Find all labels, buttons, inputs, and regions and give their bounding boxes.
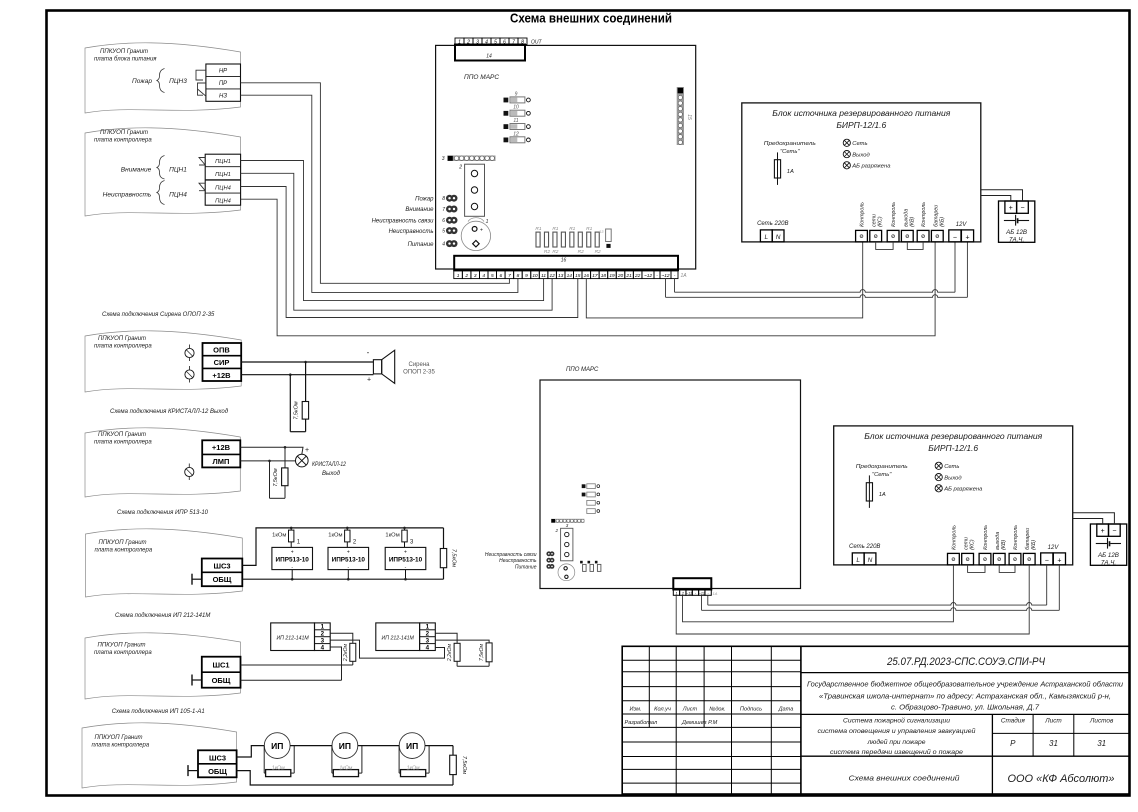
terminal box ShS1 OBSch ip212 (202, 657, 241, 688)
object description (807, 680, 1123, 712)
svg-text:ШС3: ШС3 (213, 561, 230, 570)
svg-text:Листов: Листов (1089, 718, 1114, 725)
buzzer 1 MARS1 (461, 218, 490, 251)
MARS2 bottom terminal block (673, 578, 717, 596)
stage sheet columns (1001, 717, 1114, 749)
svg-text:"Сеть": "Сеть" (780, 149, 800, 155)
jumper 10 (504, 105, 531, 117)
svg-text:R2: R2 (552, 249, 558, 255)
jumper 9 (504, 91, 531, 103)
svg-text:плата блока питания: плата блока питания (94, 57, 157, 63)
svg-text:5: 5 (442, 229, 445, 235)
svg-text:1: 1 (457, 273, 460, 279)
svg-text:Сирена: Сирена (408, 362, 430, 368)
svg-text:№док.: №док. (709, 707, 725, 713)
svg-text:1кОм: 1кОм (407, 766, 420, 772)
svg-text:АБ разряжена: АБ разряжена (943, 487, 983, 493)
svg-text:Схема подключения ИПР 513-10: Схема подключения ИПР 513-10 (117, 510, 209, 516)
svg-text:7: 7 (442, 207, 445, 213)
svg-text:ИПР513-10: ИПР513-10 (389, 557, 423, 564)
svg-text:Внимание: Внимание (121, 167, 152, 174)
svg-text:2,2кОм: 2,2кОм (343, 643, 349, 662)
BIRP-12/1.6 power supply unit 1 body (742, 103, 981, 242)
MARS1 right connector 15 (677, 87, 692, 145)
svg-text:7А.Ч.: 7А.Ч. (1009, 237, 1024, 244)
svg-text:АБ 12В: АБ 12В (1005, 229, 1027, 236)
indicator lamps unit 1 (843, 139, 891, 169)
wire LMP to lamp (240, 460, 295, 463)
wire det1 to det2 ip105 (290, 745, 332, 747)
svg-text:плата контроллера: плата контроллера (92, 743, 150, 749)
svg-text:8: 8 (442, 196, 445, 202)
svg-text:ИПР513-10: ИПР513-10 (332, 557, 366, 564)
svg-text:плата контроллера: плата контроллера (94, 440, 152, 446)
lamp KRISTALL-12 output (296, 454, 309, 467)
MARS1 bottom terminal row (454, 271, 687, 279)
svg-text:−: − (1020, 205, 1024, 212)
torn sheet Granit controller for siren (85, 331, 241, 392)
svg-text:ПЦН4: ПЦН4 (215, 198, 231, 204)
svg-text:АБ 12В: АБ 12В (1097, 552, 1119, 559)
label Neispravnost with brace PCN4 (103, 181, 188, 205)
terminal box ShS3 OBSch ip105 (198, 750, 237, 777)
BIRP-12/1.6 power supply unit 2 body (834, 426, 1073, 565)
MARS1 top OUT connector 14 (455, 38, 543, 61)
MARS2 jumper 2 (582, 492, 600, 497)
ground mark OBSch ip212 (192, 675, 202, 686)
svg-text:1: 1 (486, 219, 489, 225)
svg-text:2,2кОм: 2,2кОм (447, 643, 453, 662)
svg-text:10: 10 (532, 273, 538, 279)
svg-text:Неисправность: Неисправность (499, 558, 537, 564)
wire MARS1 ac12 to BIRP1 12V plus (666, 242, 968, 297)
svg-text:Выход: Выход (322, 471, 341, 477)
svg-text:20: 20 (617, 273, 624, 279)
svg-text:"Сеть": "Сеть" (872, 472, 892, 478)
svg-text:-: - (367, 348, 370, 357)
company name (1008, 773, 1115, 785)
MARS2 buzzer (558, 564, 575, 581)
svg-text:ОПВ: ОПВ (213, 345, 230, 354)
svg-text:Сеть 220В: Сеть 220В (757, 221, 788, 227)
svg-text:+: + (480, 228, 483, 234)
svg-text:ПЦН1: ПЦН1 (215, 172, 231, 178)
svg-text:Пожар: Пожар (132, 78, 152, 85)
svg-text:ПЦН1: ПЦН1 (169, 167, 187, 174)
siren speaker symbol (367, 348, 395, 384)
PPO MARS unit 2 body (540, 380, 801, 589)
svg-text:1: 1 (676, 591, 678, 595)
svg-text:Внимание: Внимание (405, 207, 434, 213)
battery wires unit 1 (981, 190, 1023, 201)
contact mark PCN4 (199, 183, 205, 191)
svg-text:Сеть 220В: Сеть 220В (849, 544, 880, 550)
terminal box +12V LMP (202, 440, 240, 467)
svg-text:система передачи извещений о п: система передачи извещений о пожаре (830, 748, 963, 756)
svg-text:+: + (291, 550, 294, 556)
svg-text:БИРП-12/1.6: БИРП-12/1.6 (928, 443, 978, 453)
title block small headers (630, 707, 794, 713)
torn sheet PPKUOP Granit controller board 1 (85, 128, 241, 216)
control terminals unit 1 (856, 202, 946, 242)
svg-text:«Травинская школа-интернат» по: «Травинская школа-интернат» по адресу: А… (819, 692, 1111, 701)
document number (886, 656, 1045, 668)
svg-text:7,5кОм: 7,5кОм (479, 643, 485, 661)
battery AB 12V 7Ah unit 1 (999, 201, 1035, 244)
svg-text:R1: R1 (552, 226, 558, 232)
svg-text:Блок источника резервированног: Блок источника резервированного питания (864, 432, 1043, 441)
svg-text:7,5кОм: 7,5кОм (294, 401, 300, 420)
fuse Set 1A unit 2 (856, 464, 908, 508)
svg-text:R1: R1 (535, 226, 541, 232)
svg-text:Стадия: Стадия (1001, 717, 1026, 725)
svg-text:1кОм: 1кОм (328, 533, 342, 539)
12V output terminals unit 1 (949, 222, 974, 242)
svg-text:R1: R1 (569, 226, 575, 232)
svg-text:+: + (305, 447, 309, 454)
svg-text:Неисправность связи: Неисправность связи (372, 218, 435, 224)
svg-text:+: + (1009, 205, 1013, 212)
svg-text:L: L (764, 234, 768, 241)
EOL resistor 7.5kOhm ip212 (435, 640, 492, 666)
svg-text:7,5кОм: 7,5кОм (451, 549, 457, 568)
svg-text:22: 22 (634, 273, 641, 279)
heat detector IP circle 3 (399, 733, 425, 759)
svg-text:Выход: Выход (944, 475, 962, 481)
label PPO MARS 1 (464, 74, 499, 81)
svg-text:16: 16 (584, 273, 590, 279)
heading KRISTALL-12 connection scheme (110, 409, 229, 415)
svg-text:15: 15 (575, 273, 581, 279)
svg-text:Выход: Выход (852, 152, 870, 158)
svg-text:ППО МАРС: ППО МАРС (566, 367, 599, 373)
battery AB 12V 7Ah unit 2 (1090, 524, 1126, 567)
MARS1 bottom connector 16 (454, 256, 678, 270)
svg-text:Блок источника резервированног: Блок источника резервированного питания (772, 109, 951, 118)
svg-text:5: 5 (494, 39, 497, 45)
resistor row R1 R2 MARS1 (535, 226, 601, 255)
wire OBSch to det1 pin4 (241, 647, 342, 680)
torn sheet Granit controller for IP212 (85, 633, 241, 699)
svg-text:4: 4 (321, 644, 325, 651)
svg-text:плата контроллера: плата контроллера (94, 650, 152, 656)
terminal box OPV SIR +12V (203, 343, 242, 381)
svg-text:3: 3 (474, 273, 477, 279)
svg-text:2: 2 (464, 273, 468, 279)
svg-text:4: 4 (426, 644, 430, 651)
resistor 2.2kOhm det1 (330, 633, 356, 665)
wire OBSch return bus ip105 (237, 771, 453, 785)
svg-text:ОПОП 2-35: ОПОП 2-35 (403, 370, 435, 376)
wire MARS1 minus to BIRP1 12V minus (675, 242, 956, 292)
wire ShS1 to det1 resistor (241, 664, 353, 666)
svg-text:12: 12 (549, 273, 555, 279)
svg-text:ООО «КФ Абсолют»: ООО «КФ Абсолют» (1008, 773, 1115, 785)
svg-text:(КБ): (КБ) (939, 217, 945, 227)
svg-text:7А.Ч.: 7А.Ч. (1101, 560, 1116, 567)
svg-text:R2: R2 (578, 249, 584, 255)
svg-text:ППО МАРС: ППО МАРС (464, 74, 499, 81)
heading IP 105-1-A1 connection scheme (112, 709, 205, 715)
EOL resistor 7.5kOhm ip105 (425, 746, 467, 785)
jumper 11 (504, 118, 531, 130)
relay contact symbol upper (196, 70, 206, 80)
svg-text:6: 6 (500, 273, 503, 279)
svg-text:Контроль: Контроль (983, 525, 989, 550)
relay contact symbol lower (198, 83, 206, 96)
svg-text:плата контроллера: плата контроллера (94, 344, 152, 350)
indicator lamps unit 2 (935, 462, 983, 492)
svg-text:4: 4 (442, 242, 445, 248)
svg-text:+: + (367, 377, 371, 384)
manual call point IPR513-10 no.1 (272, 540, 313, 581)
torn sheet Granit controller for IPR (86, 529, 243, 597)
resistor 1kOhm 2 (328, 527, 350, 548)
svg-text:ИП: ИП (271, 741, 283, 751)
mains terminals L N unit 2 (849, 544, 880, 565)
svg-text:1кОм: 1кОм (385, 533, 399, 539)
svg-text:АБ разряжена: АБ разряжена (851, 164, 891, 170)
fuse Set 1A unit 1 (764, 141, 816, 185)
MARS2 connector 3 row (551, 519, 584, 528)
svg-text:(КС): (КС) (878, 216, 884, 227)
svg-text:Разработал: Разработал (625, 720, 658, 726)
EOL resistor 7.5kOhm ipr (440, 528, 456, 579)
LED Неисправность (389, 227, 458, 235)
wire det2 to det3 ip105 (358, 745, 399, 747)
wire ShS3 to detector chain (237, 746, 265, 757)
svg-text:ИП: ИП (406, 741, 418, 751)
bypass resistor 1kOhm ip105 2 (332, 746, 362, 777)
control terminals unit 2 (948, 525, 1038, 565)
svg-text:R1: R1 (586, 226, 592, 232)
terminal box PCN3 rows NR PR NZ (206, 64, 241, 101)
svg-text:Схема внешних соединений: Схема внешних соединений (849, 775, 960, 783)
svg-text:1: 1 (458, 39, 461, 45)
svg-text:7,5кОм: 7,5кОм (273, 468, 279, 487)
svg-text:4: 4 (482, 273, 485, 279)
svg-text:ППКУОП Гранит: ППКУОП Гранит (98, 432, 146, 438)
svg-text:Контроль: Контроль (1013, 525, 1019, 550)
heat detector IP circle 1 (264, 733, 290, 759)
svg-text:ПЦН1: ПЦН1 (215, 159, 231, 165)
heading IPR 513-10 connection scheme (117, 510, 209, 516)
LED Питание (408, 240, 458, 248)
svg-text:9: 9 (525, 273, 528, 279)
svg-text:Неисправность связи: Неисправность связи (485, 552, 537, 558)
MARS2 jumper 4 (587, 509, 600, 514)
svg-text:13: 13 (599, 229, 604, 234)
svg-text:Изм.: Изм. (630, 707, 642, 713)
manual call point IPR513-10 no.3 (385, 540, 426, 581)
svg-text:6: 6 (442, 218, 445, 224)
wire PCN4b to BIRP1 battery control KB (241, 199, 936, 336)
wire MARS2 minus to BIRP2 12V minus (708, 565, 1047, 605)
svg-text:1А: 1А (713, 591, 718, 596)
contact mark PCN1 (199, 158, 205, 166)
svg-text:НР: НР (219, 69, 227, 75)
EOL resistor 7.5kOhm kristall (270, 447, 289, 498)
terminal box PCN1 PCN1 PCN4 PCN4 (205, 154, 240, 205)
svg-text:31: 31 (1097, 739, 1106, 748)
wire MARS2 cell2 to BIRP2 control KS (683, 565, 954, 622)
svg-text:с. Образцово-Травино, ул. Школ: с. Образцово-Травино, ул. Школьная, Д.7 (891, 702, 1040, 711)
svg-text:+12В: +12В (212, 371, 231, 380)
svg-text:+12В: +12В (212, 443, 231, 452)
svg-text:3: 3 (476, 39, 479, 45)
svg-text:12V: 12V (956, 222, 968, 228)
svg-text:Сеть: Сеть (944, 464, 959, 470)
svg-text:8: 8 (517, 273, 520, 279)
12V output terminals unit 2 (1041, 545, 1066, 565)
svg-text:НЗ: НЗ (219, 94, 227, 100)
label Vnimanie with brace PCN1 (121, 156, 187, 180)
svg-text:(КС): (КС) (970, 539, 976, 550)
smoke detector IP 212-141M no.2 (376, 623, 436, 652)
MARS2 LED Неисправность (499, 558, 554, 564)
svg-text:плата контроллера: плата контроллера (94, 138, 152, 144)
svg-text:ППКУОП Гранит: ППКУОП Гранит (100, 49, 148, 55)
svg-text:ППКУОП Гранит: ППКУОП Гранит (100, 130, 148, 136)
heading siren connection scheme (102, 312, 215, 318)
svg-text:+: + (347, 550, 350, 556)
svg-text:2: 2 (466, 39, 470, 45)
label Sirena OPOP 2-35 (403, 362, 435, 376)
svg-text:1А: 1А (681, 273, 688, 279)
svg-text:Р: Р (1010, 739, 1016, 748)
svg-text:~12: ~12 (686, 591, 692, 595)
svg-text:Неисправность: Неисправность (389, 229, 434, 235)
svg-text:+: + (404, 550, 407, 556)
svg-text:Питание: Питание (408, 242, 435, 248)
torn sheet Granit controller for KRISTALL (85, 428, 240, 497)
svg-text:6: 6 (503, 39, 506, 45)
svg-text:1кОм: 1кОм (339, 766, 352, 772)
svg-text:−: − (1045, 557, 1049, 564)
component 13 MARS1 (599, 229, 611, 248)
svg-text:Предохранитель: Предохранитель (856, 464, 908, 470)
svg-text:(КБ): (КБ) (1031, 540, 1037, 550)
svg-text:Государственное бюджетное обще: Государственное бюджетное общеобразовате… (807, 680, 1123, 689)
svg-text:система оповещения и управлени: система оповещения и управления эвакуаци… (818, 727, 976, 735)
wire MARS2 cell1 to BIRP2 control KB (676, 565, 1029, 634)
svg-text:11: 11 (541, 273, 546, 279)
svg-text:N: N (776, 234, 781, 241)
svg-text:плата контроллера: плата контроллера (95, 548, 153, 554)
LED Пожар (415, 195, 457, 203)
svg-text:Демишев Р.М: Демишев Р.М (681, 720, 718, 726)
drawing name (849, 775, 960, 783)
svg-text:31: 31 (1049, 739, 1058, 748)
terminal box ShS3 OBSch ipr (202, 559, 243, 587)
svg-text:ОБЩ: ОБЩ (213, 575, 232, 584)
manual call point IPR513-10 no.2 (328, 540, 369, 581)
sheet title (510, 12, 672, 26)
svg-text:Схема подключения Сирена ОПОП: Схема подключения Сирена ОПОП 2-35 (102, 312, 215, 318)
bypass resistor 1kOhm ip105 3 (399, 746, 429, 777)
ground mark OBSch ip105 (188, 765, 198, 776)
svg-text:L: L (856, 557, 860, 564)
wire MARS2 ac12 to BIRP2 12V plus (702, 565, 1060, 610)
label PPO MARS 2 (566, 367, 599, 373)
resistor 1kOhm 1 (272, 527, 294, 548)
svg-text:12: 12 (513, 131, 519, 137)
svg-text:Система пожарной сигнализации: Система пожарной сигнализации (843, 717, 950, 725)
svg-text:Пожар: Пожар (415, 196, 434, 202)
svg-text:7: 7 (512, 39, 515, 45)
title block table (622, 646, 1129, 794)
MARS2 small resistors (580, 561, 601, 572)
svg-text:2: 2 (681, 591, 684, 595)
svg-text:~12: ~12 (699, 591, 705, 595)
svg-text:Неисправность: Неисправность (103, 192, 152, 199)
svg-text:Лист: Лист (1044, 718, 1062, 725)
svg-text:ИП 212-141М: ИП 212-141М (382, 635, 415, 641)
ground mark OBSch ipr (192, 574, 202, 585)
svg-text:16: 16 (561, 258, 567, 264)
PPO MARS unit 1 body (436, 45, 696, 269)
svg-text:ППКУОП Гранит: ППКУОП Гранит (98, 336, 146, 342)
svg-text:15: 15 (686, 114, 692, 120)
MARS1 connector 3 row (442, 156, 496, 163)
svg-text:14: 14 (567, 273, 573, 279)
svg-text:1А: 1А (787, 169, 794, 175)
svg-text:Питание: Питание (515, 564, 537, 570)
svg-text:−: − (1112, 528, 1116, 535)
EOL resistor 7.5kOhm siren (290, 362, 308, 432)
wire PCN1a to MARS pin 11 (241, 161, 544, 301)
svg-text:ОБЩ: ОБЩ (212, 676, 231, 685)
MARS2 LED Питание (515, 564, 555, 570)
jumper KS KV unit 1 (876, 242, 923, 250)
svg-text:Схема подключения КРИСТАЛЛ-12: Схема подключения КРИСТАЛЛ-12 Выход (110, 409, 229, 415)
svg-text:1кОм: 1кОм (272, 533, 286, 539)
torn sheet Granit controller for IP105 (82, 723, 237, 788)
jumper KS KV unit 2 (968, 565, 1015, 573)
svg-text:Контроль: Контроль (860, 202, 866, 227)
developer row (625, 720, 718, 726)
svg-text:7: 7 (508, 273, 511, 279)
svg-text:OUT: OUT (531, 40, 543, 46)
svg-text:2: 2 (554, 528, 558, 533)
svg-text:11: 11 (513, 118, 518, 124)
svg-text:КРИСТАЛЛ-12: КРИСТАЛЛ-12 (312, 462, 347, 468)
svg-text:БИРП-12/1.6: БИРП-12/1.6 (836, 120, 886, 130)
LED Внимание (405, 206, 457, 214)
bypass resistor 1kOhm ip105 1 (264, 746, 294, 777)
wire OBSch bottom bus (242, 578, 443, 580)
svg-text:людей при пожаре: людей при пожаре (866, 738, 926, 746)
svg-text:2: 2 (458, 165, 462, 171)
resistor 2.2kOhm det2 (435, 633, 460, 666)
heat detector IP circle 2 (332, 733, 358, 759)
LED Неисправность связи (372, 217, 458, 225)
svg-text:Сеть: Сеть (852, 141, 867, 147)
svg-text:1А: 1А (879, 492, 886, 498)
wire SIR to siren minus (241, 361, 373, 364)
fuse terminal symbol upper (185, 345, 194, 362)
svg-text:Схема подключения ИП 105-1-А1: Схема подключения ИП 105-1-А1 (112, 709, 205, 715)
label KRISTALL-12 Vyhod (312, 462, 347, 477)
svg-text:ШС1: ШС1 (212, 661, 229, 670)
wire ShS3 top bus (242, 528, 443, 566)
label Pozhar with brace PCN3 (132, 69, 187, 93)
svg-text:4: 4 (485, 39, 488, 45)
svg-text:ОБЩ: ОБЩ (208, 767, 227, 776)
svg-text:ИПР513-10: ИПР513-10 (276, 557, 310, 564)
svg-text:~12: ~12 (661, 273, 669, 279)
svg-text:1кОм: 1кОм (272, 766, 285, 772)
